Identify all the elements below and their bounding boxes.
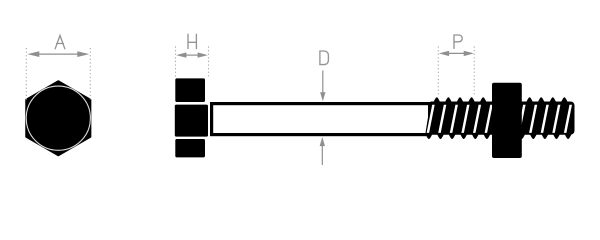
label P (454, 35, 462, 48)
label H (188, 34, 196, 48)
dim H arrowhead right (198, 52, 208, 57)
bolt head side view: bottom facet (175, 139, 205, 157)
dim D upper arrowhead (320, 92, 325, 101)
dim P arrowhead left (439, 51, 449, 56)
washer circle on hex head (26, 86, 90, 150)
dim P arrowhead right (464, 51, 474, 56)
dim H arrow line (186, 54, 199, 56)
thread crest teeth bottom (425, 134, 571, 139)
dim P extension line left (437, 47, 439, 96)
thread crest teeth top (433, 97, 567, 102)
hex head front view (26, 81, 90, 155)
dim P extension line right (473, 47, 475, 96)
dim A extension line right (89, 49, 91, 100)
dim A arrowhead left (27, 51, 39, 57)
dim A extension line left (25, 49, 27, 100)
hex nut on thread (492, 83, 522, 158)
dim H extension line right (208, 47, 210, 77)
thread band core (425, 102, 574, 135)
bolt head side view: middle facet (175, 105, 208, 137)
dim A arrowhead right (77, 51, 89, 57)
label D (320, 51, 329, 65)
dim A arrow line (39, 53, 79, 55)
dim P arrow line (448, 52, 465, 54)
bolt shank (212, 104, 430, 135)
bolt head side view: top facet (175, 78, 205, 102)
dim D lower arrow line (321, 146, 323, 165)
label A (55, 36, 65, 49)
dim H arrowhead left (176, 52, 186, 57)
thread stripes (427, 105, 572, 133)
dim D upper arrow line (322, 71, 324, 94)
dim D lower arrowhead (320, 137, 325, 146)
dim H extension line left (175, 47, 177, 77)
